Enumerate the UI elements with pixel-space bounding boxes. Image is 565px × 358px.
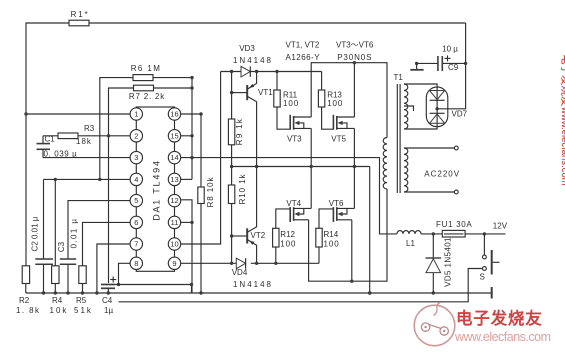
terminal top bbox=[454, 146, 458, 150]
svg-text:VT3: VT3 bbox=[287, 135, 302, 144]
pin 1 bbox=[130, 108, 142, 120]
svg-text:14: 14 bbox=[170, 153, 178, 162]
wire pin5 row bbox=[68, 201, 131, 259]
node bias mid / ground row bbox=[230, 165, 233, 168]
svg-text:www.elecfans.com: www.elecfans.com bbox=[454, 330, 551, 344]
svg-text:VT6: VT6 bbox=[329, 199, 344, 208]
svg-text:10 µ: 10 µ bbox=[442, 45, 458, 54]
pin 2 bbox=[130, 130, 142, 142]
logo circle bbox=[414, 305, 455, 346]
node bottom rail junction bbox=[66, 291, 69, 294]
svg-text:VD7: VD7 bbox=[452, 110, 468, 119]
node bottom rail junction bbox=[95, 291, 98, 294]
node bottom rail junction bbox=[42, 291, 45, 294]
svg-text:R3: R3 bbox=[84, 124, 95, 133]
node R7 rail to pin2 bbox=[107, 134, 110, 137]
pin 4 bbox=[130, 173, 142, 185]
diode VD4 1N4148 bbox=[236, 258, 245, 269]
rectifier VD7 bbox=[426, 87, 448, 127]
wire R13 top corner bbox=[321, 72, 323, 91]
wire R8 rail bbox=[200, 114, 202, 187]
svg-text:VT1, VT2: VT1, VT2 bbox=[286, 41, 320, 50]
wire secondary bottom lead bbox=[404, 191, 455, 193]
pin 7 bbox=[130, 238, 142, 250]
node rail to C4row bbox=[190, 283, 193, 286]
wire aux bottom to VD7 bbox=[404, 127, 437, 129]
svg-text:C9: C9 bbox=[448, 63, 459, 72]
svg-text:10k: 10k bbox=[50, 306, 69, 315]
wire pin13 row bbox=[180, 178, 192, 180]
wire pin10 row up to VD3 row bbox=[180, 72, 221, 245]
op-amp U1 DA1 TL494 body bbox=[136, 107, 174, 271]
svg-text:VD3: VD3 bbox=[239, 44, 255, 53]
wire pin15 row bbox=[180, 135, 192, 137]
resistor R13 bbox=[318, 90, 324, 107]
svg-text:0.01 µ: 0.01 µ bbox=[69, 218, 78, 249]
wire VT5 VT6 sources to ground row bbox=[353, 128, 355, 208]
svg-text:8: 8 bbox=[134, 259, 138, 268]
wire ground bottom rail bbox=[26, 292, 492, 294]
node pin16/R8 rail bbox=[199, 112, 202, 115]
node R6 rail to pin4 bbox=[98, 178, 101, 181]
svg-text:VT2: VT2 bbox=[251, 231, 266, 240]
svg-text:11: 11 bbox=[171, 218, 179, 227]
pin 6 bbox=[130, 216, 142, 228]
wire rail R6R7 feedback bbox=[191, 78, 193, 180]
svg-text:P30N0S: P30N0S bbox=[337, 53, 372, 62]
svg-text:15: 15 bbox=[170, 131, 178, 140]
resistor R4 bbox=[52, 266, 59, 284]
resistor R11 bbox=[274, 90, 280, 107]
node VD7 center bbox=[435, 107, 438, 110]
pin 14 bbox=[168, 151, 180, 163]
svg-text:VT5: VT5 bbox=[331, 135, 346, 144]
node VT2 emitter pin9 row bbox=[255, 262, 258, 265]
pin 3 bbox=[130, 151, 142, 163]
wire pin16 row bbox=[180, 113, 201, 115]
svg-text:9: 9 bbox=[172, 259, 176, 268]
wire R7 left rail to C4 bbox=[109, 88, 134, 283]
wire R14 to VT6 gate bbox=[319, 209, 333, 228]
transistor VT3 P30N0S MOSFET bbox=[289, 115, 291, 130]
node R12 bottom bbox=[274, 262, 277, 265]
transistor VT5 P30N0S MOSFET bbox=[332, 115, 334, 130]
wire VD3 row bbox=[221, 71, 241, 73]
wire VT3 VT4 sources to ground row bbox=[310, 128, 312, 208]
svg-text:R8 10k: R8 10k bbox=[206, 177, 215, 208]
svg-text:7: 7 bbox=[134, 240, 138, 249]
transistor VT2 A1266 bbox=[232, 235, 248, 237]
svg-text:VT1: VT1 bbox=[258, 88, 273, 97]
wire R12 to VT4 gate bbox=[276, 209, 290, 228]
svg-text:18k: 18k bbox=[76, 137, 92, 146]
svg-text:DA1 TL494: DA1 TL494 bbox=[152, 159, 162, 221]
svg-text:100: 100 bbox=[283, 99, 299, 108]
node pin11/rail bbox=[190, 221, 193, 224]
diode VD5 1N5401 bbox=[432, 234, 434, 293]
transformer T1 primary winding bbox=[383, 138, 387, 190]
svg-text:电子发烧友: 电子发烧友 bbox=[456, 308, 543, 328]
svg-text:电子发烧友: 电子发烧友 bbox=[560, 54, 565, 107]
capacitor C4 electrolytic bbox=[101, 284, 115, 286]
wire pin9 VD4 row bbox=[180, 262, 236, 264]
pin 8 bbox=[130, 257, 142, 269]
capacitor C1 bbox=[42, 136, 44, 144]
resistor R2 bbox=[22, 266, 29, 284]
svg-text:12: 12 bbox=[170, 196, 178, 205]
diode VD3 1N4148 bbox=[241, 66, 250, 77]
svg-text:S: S bbox=[480, 273, 485, 282]
svg-text:C2 0.01 µ: C2 0.01 µ bbox=[31, 216, 40, 251]
svg-text:R5: R5 bbox=[76, 296, 87, 305]
svg-text:100: 100 bbox=[280, 240, 296, 249]
svg-text:R10 1k: R10 1k bbox=[238, 174, 247, 205]
svg-text:1: 1 bbox=[134, 110, 138, 119]
wire R6 left to rail x100 bbox=[100, 78, 133, 180]
wire C9 left to ground stub bbox=[417, 62, 438, 64]
node VT1 base tap bbox=[230, 91, 233, 94]
wire pin12 jog down bbox=[180, 200, 192, 293]
wire second bottom line to switch bbox=[119, 269, 483, 302]
resistor R14 bbox=[316, 228, 322, 247]
wire pin7 row bbox=[97, 244, 131, 293]
node pin15/rail bbox=[190, 134, 193, 137]
wire secondary top lead bbox=[404, 147, 455, 149]
svg-text:4: 4 bbox=[134, 175, 138, 184]
svg-text:C1: C1 bbox=[45, 135, 56, 144]
resistor R10 1k bbox=[228, 185, 234, 204]
svg-text:51k: 51k bbox=[74, 306, 93, 315]
capacitor C9 bbox=[442, 62, 465, 64]
pin 15 bbox=[168, 130, 180, 142]
wire R14 bottom corner bbox=[318, 247, 320, 263]
svg-text:AC220V: AC220V bbox=[424, 170, 460, 179]
transformer T1 secondary winding bbox=[404, 148, 408, 192]
svg-text:VT3～VT6: VT3～VT6 bbox=[336, 41, 374, 50]
battery plate short bbox=[491, 287, 493, 299]
node R11 top bbox=[275, 70, 278, 73]
wire C4 plus row to ground drop bbox=[115, 285, 192, 294]
pin 13 bbox=[168, 173, 180, 185]
wire aux center tap bbox=[404, 106, 414, 111]
resistor R12 bbox=[273, 228, 279, 247]
node ground row drop at bottom rail bbox=[368, 291, 371, 294]
resistor R9 1k bbox=[228, 119, 234, 145]
svg-text:10: 10 bbox=[170, 240, 178, 249]
svg-text:R7 2. 2k: R7 2. 2k bbox=[129, 92, 165, 101]
svg-text:1N4148: 1N4148 bbox=[233, 280, 273, 289]
svg-text:1µ: 1µ bbox=[104, 306, 113, 315]
svg-text:VT4: VT4 bbox=[286, 199, 301, 208]
wire R12 bottom bbox=[275, 247, 277, 263]
svg-text:R9 1k: R9 1k bbox=[235, 118, 244, 145]
node bottom rail junction bbox=[368, 291, 371, 294]
node pin14/rail bbox=[190, 156, 193, 159]
wire R11 to VT3 gate bbox=[277, 107, 290, 129]
svg-text:2: 2 bbox=[134, 131, 138, 140]
svg-text:6: 6 bbox=[134, 218, 138, 227]
wire VD7 to C9 node bbox=[437, 23, 466, 109]
battery plate long bbox=[491, 250, 493, 275]
fuse FU1 30A bbox=[442, 230, 465, 237]
svg-text:16: 16 bbox=[170, 110, 178, 119]
node bottom rail junction bbox=[54, 291, 57, 294]
node bottom rail junction bbox=[199, 291, 202, 294]
pin 12 bbox=[168, 194, 180, 206]
node C9 right bbox=[464, 62, 467, 65]
svg-text:R12: R12 bbox=[280, 230, 295, 239]
svg-text:FU1 30A: FU1 30A bbox=[436, 220, 472, 229]
wire R11 top bbox=[276, 72, 278, 91]
node VT6 drain row bbox=[350, 280, 353, 283]
wire pin8 row bbox=[119, 263, 132, 284]
node bottom rail junction bbox=[81, 291, 84, 294]
svg-text:3: 3 bbox=[134, 153, 138, 162]
node VD3 anode / R9 rail bbox=[230, 70, 233, 73]
svg-text:R2: R2 bbox=[19, 296, 30, 305]
ground bbox=[416, 63, 418, 69]
transformer T1 core bbox=[396, 84, 398, 193]
pin 5 bbox=[130, 194, 142, 206]
svg-text:R4: R4 bbox=[52, 296, 63, 305]
wire pin4 row bbox=[44, 178, 132, 180]
node VT collectors ground row bbox=[255, 165, 258, 168]
node pin8 to C4 row bbox=[117, 283, 120, 286]
wire L1 to fuse bbox=[421, 233, 442, 235]
node VD4 anode on pin9 row bbox=[230, 262, 233, 265]
svg-text:A1266-Y: A1266-Y bbox=[286, 53, 321, 62]
wire top supply rail bbox=[26, 23, 69, 266]
wire pin6 row bbox=[83, 222, 132, 265]
wire pin2 row bbox=[43, 135, 131, 137]
node bottom rail junction bbox=[432, 291, 435, 294]
resistor R7 bbox=[134, 85, 154, 91]
pin 11 bbox=[168, 216, 180, 228]
node VD5 top bbox=[432, 232, 435, 235]
node sources ground row bbox=[310, 165, 313, 168]
wire R7 right bbox=[154, 87, 193, 89]
node VT5 drain row bbox=[353, 61, 356, 64]
switch S bbox=[483, 234, 485, 255]
wire pin14 row long to L1 drop bbox=[180, 158, 397, 234]
svg-text:12V: 12V bbox=[493, 222, 508, 231]
svg-text:R14: R14 bbox=[324, 230, 339, 239]
wire R6 right bbox=[153, 77, 192, 79]
resistor R5 bbox=[79, 266, 86, 284]
svg-text:R1*: R1* bbox=[71, 10, 90, 19]
transistor VT4 P30N0S MOSFET bbox=[289, 207, 291, 222]
resistor R3 bbox=[58, 133, 78, 139]
wire pin1 row bbox=[26, 113, 131, 115]
svg-text:1N4148: 1N4148 bbox=[233, 56, 273, 65]
svg-text:VD5 1N5401: VD5 1N5401 bbox=[444, 237, 453, 287]
svg-text:L1: L1 bbox=[406, 239, 415, 248]
svg-text:C4: C4 bbox=[102, 296, 113, 305]
svg-text:www.elecfans.com: www.elecfans.com bbox=[559, 106, 565, 186]
node R6 right bbox=[190, 76, 193, 79]
node bottom rail junction bbox=[107, 291, 110, 294]
pin 10 bbox=[168, 238, 180, 250]
capacitor C2 bbox=[43, 179, 45, 259]
svg-text:100: 100 bbox=[324, 240, 340, 249]
svg-text:5: 5 bbox=[134, 196, 138, 205]
node VT1 emitter on row bbox=[255, 70, 258, 73]
svg-text:VD4: VD4 bbox=[232, 268, 248, 277]
transistor VT1 A1266 bbox=[232, 92, 248, 94]
svg-text:C3: C3 bbox=[57, 241, 66, 252]
pin 9 bbox=[168, 257, 180, 269]
svg-text:T1: T1 bbox=[394, 73, 404, 82]
svg-text:13: 13 bbox=[170, 175, 178, 184]
transistor VT6 P30N0S MOSFET bbox=[332, 207, 334, 222]
wire VT4 VT6 drains to T1 primary bottom bbox=[309, 189, 387, 281]
wire VT3 VT5 drains to T1 primary top bbox=[311, 63, 387, 138]
wire pin11 row bbox=[180, 221, 192, 223]
inductor L1 bbox=[397, 231, 421, 234]
node pin1-rail junction bbox=[24, 112, 27, 115]
wire aux top to VD7 bbox=[404, 84, 437, 87]
wire pin3 row bbox=[43, 157, 131, 159]
svg-text:1. 8k: 1. 8k bbox=[16, 306, 40, 315]
wire R13 to VT5 gate bbox=[322, 107, 334, 129]
resistor R8 bbox=[198, 187, 204, 204]
resistor R6 bbox=[133, 75, 153, 81]
node VT2 base tap bbox=[230, 234, 233, 237]
wire ground row mid bbox=[232, 166, 370, 168]
capacitor C3 bbox=[60, 258, 76, 260]
transformer T1 aux winding bbox=[404, 84, 408, 129]
terminal bottom bbox=[454, 190, 458, 194]
resistor R1 bbox=[69, 20, 89, 26]
svg-text:R6 1M: R6 1M bbox=[131, 64, 162, 73]
svg-text:100: 100 bbox=[327, 99, 343, 108]
pin 16 bbox=[168, 108, 180, 120]
wire bias rail bbox=[231, 72, 233, 120]
node R7 right bbox=[190, 86, 193, 89]
node switch branch bbox=[483, 232, 486, 235]
node R4 top on pin4 row bbox=[54, 178, 57, 181]
wire fuse to 12V bbox=[465, 233, 505, 235]
